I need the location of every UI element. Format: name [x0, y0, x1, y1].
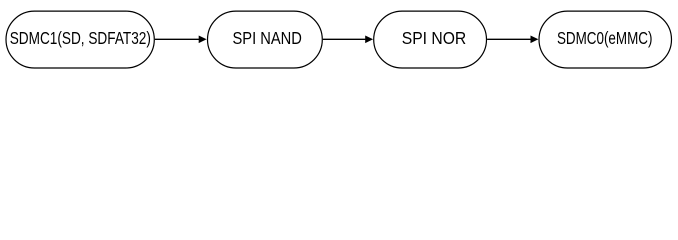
- svg-text:SDMC1(SD, SDFAT32): SDMC1(SD, SDFAT32): [10, 28, 151, 48]
- wire arrow 2: [323, 36, 373, 44]
- wire arrow 1: [155, 36, 207, 44]
- svg-text:SPI NOR: SPI NOR: [402, 28, 467, 48]
- svg-text:SPI NAND: SPI NAND: [233, 28, 302, 48]
- node SDMC0(eMMC): [539, 11, 672, 68]
- node SDMC1(SD, SDFAT32): [6, 11, 154, 68]
- svg-text:SDMC0(eMMC): SDMC0(eMMC): [557, 28, 653, 48]
- wire arrow 3: [487, 36, 538, 44]
- node SPI NOR: [374, 11, 487, 68]
- node SPI NAND: [208, 11, 323, 68]
